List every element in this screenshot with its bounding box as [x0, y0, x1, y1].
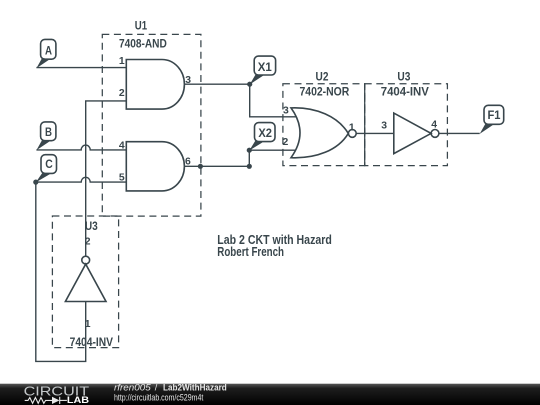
wire AND2 output to corner node	[185, 165, 250, 167]
flag A	[36, 39, 55, 68]
wire AND1 output to X1 node	[185, 83, 250, 85]
svg-text:rfren005: rfren005	[114, 383, 152, 393]
svg-text:http://circuitlab.com/c529m4t: http://circuitlab.com/c529m4t	[114, 392, 204, 402]
IC box U1	[102, 34, 201, 216]
flag X1	[250, 56, 276, 84]
svg-text:3: 3	[185, 75, 191, 86]
junction node at U1 edge	[198, 164, 203, 169]
svg-text:2: 2	[85, 236, 91, 247]
svg-text:LAB: LAB	[67, 395, 89, 405]
wire corner node up to X2 node to NOR pin2	[249, 150, 296, 166]
flag B	[36, 122, 55, 150]
svg-text:2: 2	[283, 137, 289, 148]
wire NOR output to inverter input	[356, 132, 394, 134]
wire inverter output to F1	[439, 132, 480, 134]
IC box U3 (bottom)	[52, 216, 118, 348]
svg-text:3: 3	[283, 106, 289, 117]
svg-text:6: 6	[185, 156, 191, 167]
svg-text:4: 4	[431, 120, 437, 131]
wire A to pin1	[36, 67, 126, 69]
AND gate U1a	[126, 60, 184, 110]
footer bar	[0, 384, 540, 405]
svg-text:5: 5	[119, 173, 125, 184]
flag C	[36, 155, 57, 183]
svg-text:U1: U1	[135, 19, 148, 33]
svg-text:7408-AND: 7408-AND	[119, 36, 167, 50]
svg-text:U3: U3	[85, 219, 98, 233]
svg-text:U2: U2	[316, 69, 329, 83]
svg-text:7404-INV: 7404-INV	[70, 335, 113, 349]
svg-text:X2: X2	[258, 127, 272, 140]
flag X2	[249, 123, 275, 151]
IC box U3 (right)	[365, 84, 448, 166]
junction node X2	[247, 148, 252, 153]
svg-text:Robert French: Robert French	[217, 245, 284, 259]
flag F1	[480, 105, 504, 134]
caption text	[217, 233, 331, 259]
svg-text:7404-INV: 7404-INV	[381, 84, 429, 98]
svg-text:X1: X1	[258, 61, 272, 74]
inverter U3a (right)	[394, 113, 439, 154]
logo resistor and diode	[25, 397, 67, 404]
svg-text:B: B	[45, 126, 52, 139]
wire C down around to inverter input	[36, 182, 86, 361]
AND gate U1b	[126, 142, 184, 191]
svg-text:1: 1	[119, 56, 125, 67]
svg-text:3: 3	[381, 121, 387, 132]
wire X1 node down to NOR pin3	[250, 84, 296, 117]
IC box U2	[283, 84, 365, 166]
wire C to pin5 (hop over vertical)	[36, 177, 127, 182]
svg-text:F1: F1	[488, 109, 501, 122]
svg-text:4: 4	[119, 140, 125, 151]
svg-text:C: C	[45, 158, 53, 171]
svg-text:U3: U3	[397, 69, 410, 83]
svg-text:1: 1	[349, 122, 355, 133]
svg-text:1: 1	[85, 319, 91, 330]
svg-text:7402-NOR: 7402-NOR	[300, 84, 350, 98]
junction node corner	[247, 164, 252, 169]
svg-text:2: 2	[119, 88, 125, 99]
inverter U3b (bottom)	[65, 256, 106, 301]
NOR gate U2	[291, 108, 356, 158]
wire inverter output to pin2	[86, 101, 127, 256]
junction node X1	[247, 82, 252, 87]
svg-text:A: A	[45, 44, 52, 57]
svg-text:Lab2WithHazard: Lab2WithHazard	[163, 383, 227, 393]
wire B to pin4 (hop over vertical)	[36, 145, 126, 150]
junction node C	[33, 180, 38, 185]
